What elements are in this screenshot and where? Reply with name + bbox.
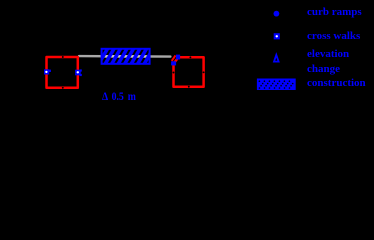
legend text: construction xyxy=(307,78,366,88)
legend marker: elevation change (open triangle / delta glyph) xyxy=(274,55,279,62)
wire: gray road segment between blocks xyxy=(79,55,170,58)
curb ramp dot: right block west edge xyxy=(173,72,175,74)
curb ramp dot: right block north edge xyxy=(189,56,191,58)
crosswalk marker: left block east edge xyxy=(75,69,82,76)
crosswalk marker: right block chamfer top xyxy=(176,55,180,60)
left city block (red square) xyxy=(47,57,78,88)
curb ramp dot: left block north edge xyxy=(62,56,64,58)
legend marker: cross walks (blue square, white center) xyxy=(274,33,280,39)
crosswalk stripe across road end xyxy=(172,55,176,61)
curb ramp dot: right block east edge xyxy=(203,71,205,73)
crosswalk marker: left block west edge xyxy=(44,69,51,74)
legend text: elevation xyxy=(307,49,349,59)
legend text: curb ramps xyxy=(307,7,362,17)
legend marker: curb ramps (blue dot) xyxy=(274,11,280,17)
curb ramp dot: left block south edge xyxy=(62,87,64,89)
curb ramp dot: right block south edge xyxy=(188,86,190,88)
label: delta 0.5 m xyxy=(102,92,136,102)
crosswalk marker: right block chamfer bottom xyxy=(171,61,176,65)
legend text: change xyxy=(307,64,340,74)
construction zone rectangle (blue hatched, open fill) xyxy=(91,48,161,67)
legend swatch: construction (blue, dotted hatch) xyxy=(257,79,296,91)
right city block (red polygon with chamfered top-left corner) xyxy=(174,57,204,86)
legend text: cross walks xyxy=(307,31,360,41)
